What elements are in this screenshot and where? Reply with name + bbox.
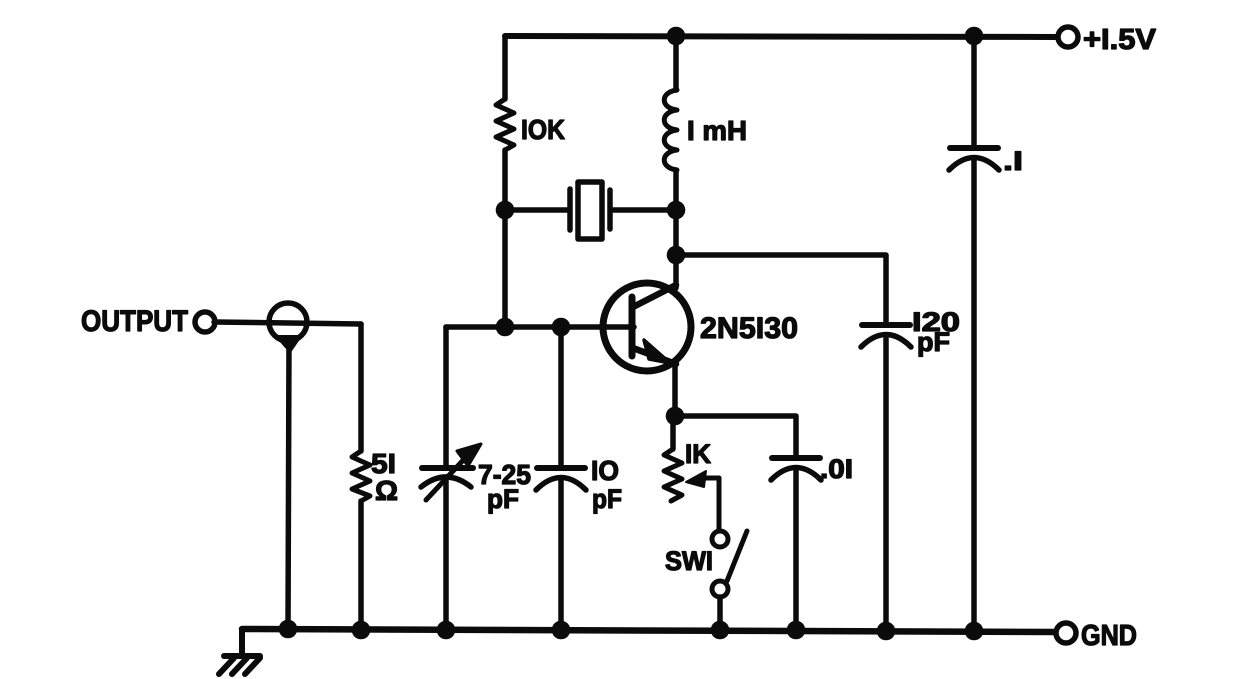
wire collector to transistor bbox=[673, 255, 679, 288]
wire collector branch to 120pF bbox=[676, 255, 886, 322]
inductor L1 1mH bbox=[664, 90, 677, 170]
svg-text:pF: pF bbox=[917, 327, 950, 357]
svg-text:Ω: Ω bbox=[375, 475, 398, 506]
node switch ground junction bbox=[711, 621, 730, 640]
wire inductor bottom lead bbox=[673, 170, 679, 210]
wire 10K bottom to crystal node bbox=[502, 150, 508, 210]
wire emitter branch to .01 bbox=[675, 416, 796, 456]
svg-text:OUTPUT: OUTPUT bbox=[81, 305, 188, 338]
capacitor C .1 bbox=[949, 148, 999, 170]
node crystal right junction bbox=[667, 201, 686, 220]
ground symbol chassis bbox=[219, 629, 260, 674]
wire 10pF to ground rail bbox=[558, 479, 564, 630]
node jack ground junction bbox=[279, 620, 298, 639]
node 7-25pF ground junction bbox=[437, 621, 456, 640]
svg-text:2N5I30: 2N5I30 bbox=[700, 312, 798, 345]
wire 51 ohm to ground rail bbox=[358, 501, 364, 630]
node .1 ground junction bbox=[965, 622, 984, 641]
label 120 pF bbox=[912, 307, 960, 357]
svg-text:I mH: I mH bbox=[687, 115, 747, 146]
resistor R 10K bbox=[496, 99, 514, 150]
svg-text:.I: .I bbox=[1003, 146, 1023, 176]
wire output lead through jack bbox=[214, 322, 361, 324]
capacitor C 120pF bbox=[861, 325, 911, 347]
wire 51 ohm top lead bbox=[358, 324, 364, 451]
svg-text:GND: GND bbox=[1081, 620, 1137, 652]
svg-text:IK: IK bbox=[685, 439, 711, 469]
node 51 ohm ground junction bbox=[352, 621, 371, 640]
node base 7-25pF corner to junction 505 bbox=[496, 318, 515, 337]
connector J1 output jack bbox=[269, 303, 307, 352]
wire 10pF top lead bbox=[558, 327, 564, 467]
svg-text:+I.5V: +I.5V bbox=[1083, 24, 1157, 56]
wire switch to ground rail bbox=[717, 597, 723, 630]
wire jack shield to ground rail bbox=[288, 342, 289, 629]
node 10pF ground junction bbox=[552, 621, 571, 640]
resistor R 51 ohm bbox=[352, 451, 370, 501]
node emitter junction bbox=[666, 407, 685, 426]
node 120pF ground junction bbox=[877, 622, 896, 641]
svg-text:SWI: SWI bbox=[665, 546, 713, 576]
resistor R 1K rheostat bbox=[664, 449, 682, 501]
node collector branch junction bbox=[667, 246, 686, 265]
node inductor top junction bbox=[667, 27, 686, 46]
wire 10K top (supply to resistor) bbox=[502, 36, 508, 99]
wire top supply rail bbox=[505, 36, 1057, 37]
wire 7-25pF to ground rail bbox=[443, 478, 449, 630]
node crystal left junction bbox=[496, 201, 515, 220]
wire bottom ground rail bbox=[242, 629, 1054, 632]
svg-text:pF: pF bbox=[592, 484, 622, 514]
wire rheostat wiper arm bbox=[686, 471, 719, 529]
svg-text:.0I: .0I bbox=[820, 454, 853, 484]
wire .1 cap to ground rail bbox=[971, 159, 977, 630]
label 10 pF bbox=[591, 455, 622, 514]
wire .1 cap top lead bbox=[971, 36, 977, 147]
wire emitter lead bbox=[672, 364, 678, 416]
wire inductor top lead bbox=[673, 36, 679, 90]
svg-text:IOK: IOK bbox=[521, 114, 565, 145]
wire 7-25pF top lead bbox=[443, 327, 449, 465]
node .01 ground junction bbox=[787, 621, 806, 640]
capacitor C .01 bbox=[771, 458, 821, 480]
transistor Q1 2N5130 bbox=[603, 283, 691, 371]
wire collector node vertical bbox=[673, 210, 679, 255]
capacitor C 10pF bbox=[536, 468, 586, 490]
crystal Y1 bbox=[570, 182, 610, 239]
terminal +1.5V bbox=[1058, 27, 1078, 47]
capacitor C variable 7-25pF bbox=[421, 444, 481, 500]
label 51 ohm bbox=[371, 448, 398, 506]
node top rail .1 junction bbox=[965, 27, 984, 46]
wire crystal node down to base bbox=[502, 210, 508, 327]
wire 1K top lead bbox=[670, 416, 676, 449]
node base 10pF junction bbox=[552, 318, 571, 337]
terminal GND bbox=[1056, 623, 1076, 643]
switch SW1 bbox=[712, 531, 747, 597]
wire 120pF to ground rail bbox=[883, 336, 889, 630]
svg-text:pF: pF bbox=[487, 484, 519, 514]
terminal OUTPUT bbox=[195, 312, 215, 332]
wire base line bbox=[446, 324, 634, 330]
svg-text:IO: IO bbox=[591, 455, 619, 486]
wire .01 to ground rail bbox=[793, 469, 799, 630]
label 7-25 pF bbox=[478, 459, 531, 514]
wire crystal right lead bbox=[613, 207, 676, 213]
wire crystal left lead bbox=[505, 207, 567, 213]
